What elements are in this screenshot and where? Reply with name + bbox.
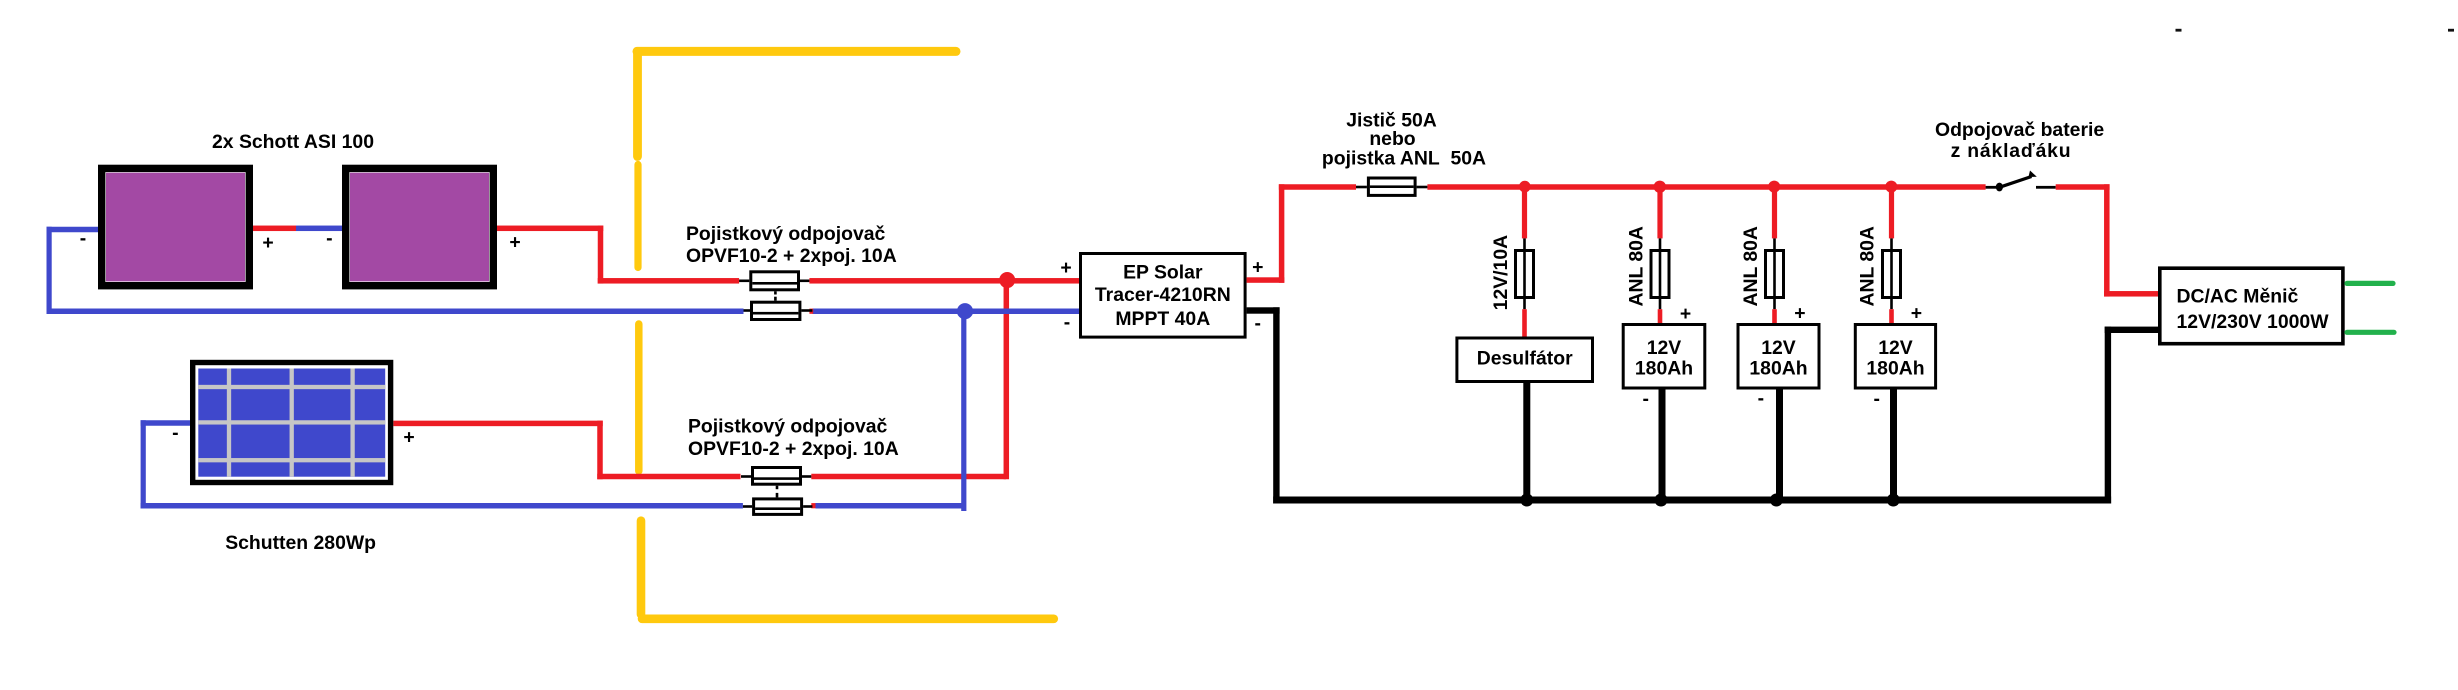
node black bus junction dot 2: [1655, 494, 1668, 507]
wire fuse disconnector 1 (red) to MPPT + input: [809, 278, 1079, 284]
wire red drop column 3: [1772, 189, 1777, 238]
wire red drop column 2: [1657, 189, 1662, 238]
wire PV3 negative (blue) loop: [141, 420, 743, 508]
desulfator U2: [1457, 338, 1593, 382]
svg-text:-: -: [1873, 388, 1879, 410]
wire PV string negative bus (blue) to fuse disconnector 1: [47, 309, 744, 315]
svg-text:Tracer-4210RN: Tracer-4210RN: [1095, 284, 1231, 306]
label fuse disconnector 2: [688, 416, 899, 461]
label Odpojovac baterie z nakladaku: [1935, 119, 2104, 162]
fuse F7 ANL 80A column 2: [1651, 238, 1669, 309]
wire PV1 plus to PV2 minus link (red part): [253, 226, 296, 232]
node red bus junction dot column 2: [1654, 181, 1666, 193]
solar panel PV2 Schott ASI 100 #2: [346, 168, 494, 285]
battery B1 12V 180Ah: [1623, 325, 1705, 389]
wire main red bus segment fuse F5 to switch S1: [1427, 184, 1985, 190]
solar panel PV3 Schutten 280Wp: [193, 363, 391, 483]
inverter U3 DC/AC Menic 12V/230V 1000W: [2160, 268, 2343, 344]
battery B3 12V 180Ah: [1855, 325, 1935, 389]
svg-text:-: -: [1642, 388, 1648, 410]
wire AC output neutral (green): [2347, 330, 2394, 335]
switch S1 battery disconnector: [1986, 171, 2056, 192]
wire PV1 plus to PV2 minus link (blue part): [296, 226, 342, 232]
node B blue junction dot at MPPT - input: [957, 303, 973, 319]
svg-text:Desulfátor: Desulfátor: [1477, 348, 1573, 370]
svg-text:ANL 80A: ANL 80A: [1625, 226, 1647, 306]
wire main black negative bus: [1273, 497, 2111, 504]
wire switch S1 (red) to inverter: [2056, 184, 2158, 296]
battery B2 12V 180Ah: [1738, 325, 1819, 389]
svg-text:+: +: [509, 232, 520, 254]
svg-text:180Ah: 180Ah: [1866, 358, 1924, 380]
svg-text:-: -: [1254, 312, 1260, 334]
wire black lead battery B1 to bus: [1659, 390, 1666, 501]
wire inverter black lead (black): [2105, 327, 2158, 504]
svg-text:-: -: [1758, 388, 1764, 410]
svg-text:+: +: [1794, 303, 1805, 325]
wire red fleck at fuse F4 output: [811, 503, 815, 508]
fuse F1 OPVF10-2 pole 1 (red side): [739, 272, 809, 290]
node black bus junction dot 4: [1887, 494, 1900, 507]
wire PV3 positive (red) to fuse disconnector 2: [393, 421, 740, 480]
fuse F4 OPVF10-2 pole 2 (blue side, lower pair): [743, 486, 812, 515]
svg-text:MPPT 40A: MPPT 40A: [1115, 308, 1210, 330]
svg-text:180Ah: 180Ah: [1749, 358, 1807, 380]
solar panel PV1 Schott ASI 100 #1: [102, 168, 250, 285]
label Jistic 50A nebo pojistka ANL 50A: [1322, 110, 1486, 170]
node PV-array separator (yellow bracket bottom): [641, 521, 1054, 619]
wire fuse disconnector 2 (blue) output to riser: [816, 503, 964, 509]
svg-text:Odpojovač baterie: Odpojovač baterie: [1935, 119, 2104, 141]
node black bus junction dot 3: [1770, 494, 1783, 507]
svg-text:pojistka ANL 50A: pojistka ANL 50A: [1322, 148, 1486, 170]
node stray mark 1: [2176, 29, 2182, 32]
wire red fleck at fuse F2 output: [809, 309, 813, 314]
node black bus junction dot 1: [1520, 494, 1533, 507]
svg-text:12V/10A: 12V/10A: [1490, 235, 1512, 310]
fuse F6 12V/10A: [1516, 238, 1534, 309]
MPPT controller U1 EP Solar Tracer-4210RN: [1081, 254, 1246, 338]
svg-text:+: +: [1680, 303, 1691, 325]
fuse F5 Jistic 50A / pojistka ANL 50A: [1356, 178, 1427, 195]
label fuse disconnector 1: [686, 223, 897, 267]
fuse F2 OPVF10-2 pole 2 (blue side): [744, 291, 813, 319]
node PV-array separator (yellow bracket top): [637, 51, 956, 471]
wire red stub fuse F6 to desulfator: [1522, 309, 1527, 336]
svg-text:-: -: [172, 422, 178, 444]
node stray mark 2: [2448, 29, 2454, 32]
svg-text:12V: 12V: [1761, 337, 1796, 359]
svg-text:+: +: [1252, 256, 1263, 278]
wire main red bus segment left of fuse F5: [1279, 184, 1356, 190]
svg-text:+: +: [262, 232, 273, 254]
svg-text:+: +: [403, 427, 414, 449]
wire PV1 negative (blue) left stub and drop: [47, 227, 99, 314]
wire black lead battery B3 to bus: [1890, 390, 1897, 501]
wire black lead battery B2 to bus: [1776, 390, 1783, 501]
fuse F8 ANL 80A column 3: [1766, 238, 1784, 309]
svg-text:2x Schott ASI 100: 2x Schott ASI 100: [212, 131, 374, 153]
svg-text:12V: 12V: [1647, 337, 1682, 359]
svg-text:Pojistkový odpojovač: Pojistkový odpojovač: [688, 416, 888, 438]
svg-text:z náklaďáku: z náklaďáku: [1951, 140, 2072, 162]
svg-text:OPVF10-2 + 2xpoj. 10A: OPVF10-2 + 2xpoj. 10A: [686, 245, 897, 267]
svg-text:12V: 12V: [1878, 337, 1913, 359]
svg-text:-: -: [326, 227, 332, 249]
svg-text:ANL 80A: ANL 80A: [1857, 226, 1879, 306]
wire PV2 positive (red) to fuse disconnector 1: [497, 226, 739, 284]
svg-text:Pojistkový odpojovač: Pojistkový odpojovač: [686, 223, 886, 245]
svg-text:-: -: [1064, 312, 1070, 334]
node A red junction dot at MPPT + input: [999, 272, 1015, 288]
svg-text:180Ah: 180Ah: [1635, 358, 1693, 380]
wire fuse disconnector 2 (red) output to riser: [811, 474, 1006, 480]
svg-text:+: +: [1911, 303, 1922, 325]
wire blue riser from fuse disconnector 2 to node B: [961, 309, 966, 512]
svg-text:DC/AC Měnič: DC/AC Měnič: [2177, 286, 2299, 308]
wire MPPT + output (red) to main red bus: [1247, 184, 1285, 283]
node red bus junction dot column 3: [1768, 181, 1780, 193]
svg-text:OPVF10-2 + 2xpoj. 10A: OPVF10-2 + 2xpoj. 10A: [688, 438, 899, 460]
svg-text:EP Solar: EP Solar: [1123, 262, 1203, 284]
wire red stub fuse F9 to battery B3: [1889, 309, 1894, 323]
fuse F9 ANL 80A column 4: [1883, 238, 1901, 309]
fuse F3 OPVF10-2 pole 1 (red side, lower pair): [741, 468, 811, 485]
wire red stub fuse F7 to battery B1: [1658, 309, 1663, 323]
wire red riser from fuse disconnector 2 to node A: [1004, 278, 1010, 479]
node red bus junction dot column 1: [1519, 181, 1531, 193]
svg-text:-: -: [80, 228, 86, 250]
wire red drop column 1: [1522, 189, 1527, 238]
svg-text:Schutten 280Wp: Schutten 280Wp: [225, 532, 376, 554]
svg-text:ANL 80A: ANL 80A: [1740, 226, 1762, 306]
wire red stub fuse F8 to battery B2: [1772, 309, 1777, 323]
svg-text:12V/230V 1000W: 12V/230V 1000W: [2177, 311, 2330, 333]
wire red drop column 4: [1889, 189, 1894, 238]
svg-text:+: +: [1060, 257, 1071, 279]
wire fuse disconnector 1 (blue) to MPPT - input: [812, 309, 1079, 315]
wire AC output phase (green): [2347, 281, 2393, 286]
node red bus junction dot column 4: [1885, 181, 1897, 193]
wire black lead desulfator to bus: [1523, 382, 1530, 501]
wire MPPT - output (black) to main black bus: [1247, 307, 1280, 503]
